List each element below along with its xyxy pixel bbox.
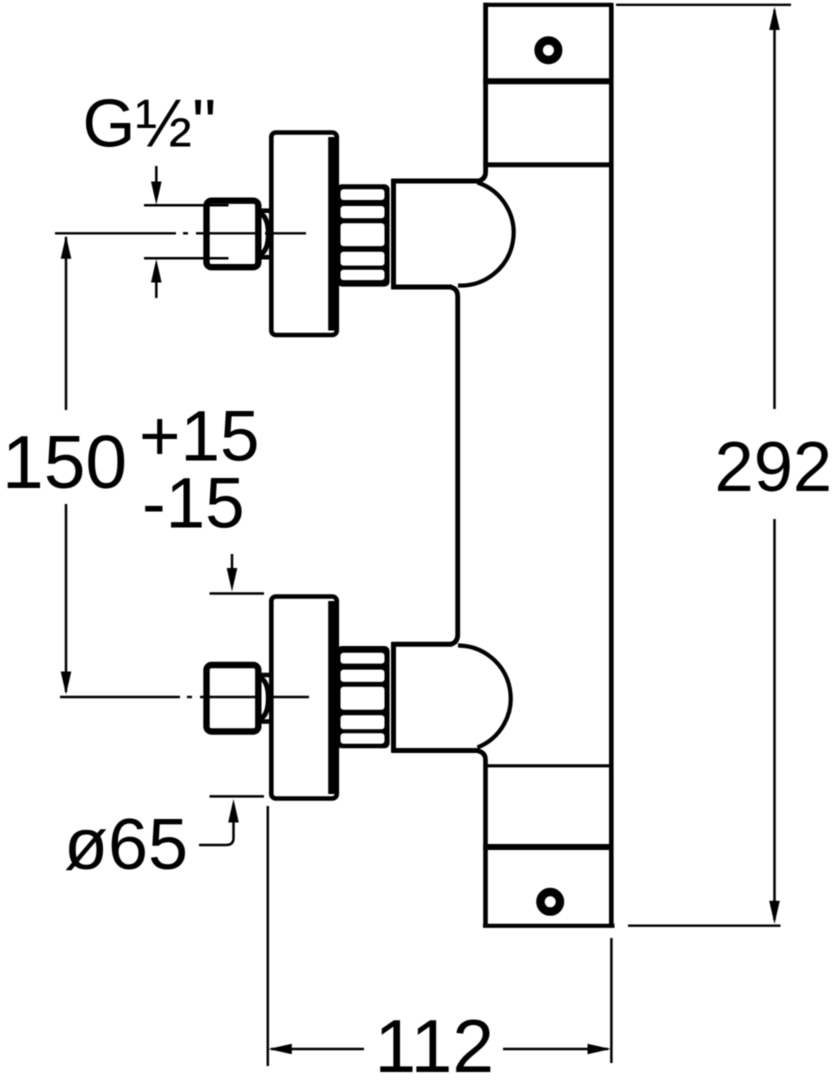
svg-text:112: 112	[375, 1004, 495, 1080]
svg-text:-15: -15	[142, 465, 245, 544]
svg-text:ø65: ø65	[64, 805, 188, 885]
svg-text:G½": G½"	[83, 86, 217, 162]
svg-text:292: 292	[715, 427, 833, 506]
svg-text:150: 150	[2, 420, 127, 504]
